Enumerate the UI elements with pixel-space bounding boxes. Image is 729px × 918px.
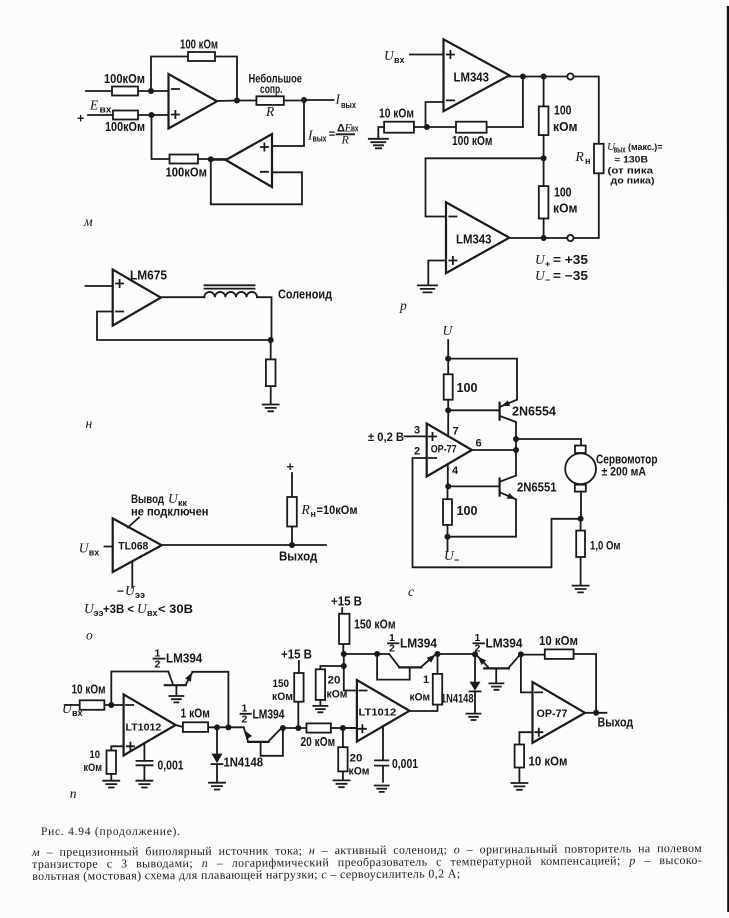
svg-text:кОм: кОм bbox=[553, 120, 578, 134]
svg-text:Соленоид: Соленоид bbox=[278, 288, 332, 302]
svg-text:с: с bbox=[408, 584, 414, 599]
svg-text:LM343: LM343 bbox=[454, 71, 490, 85]
svg-text:п: п bbox=[70, 786, 77, 801]
svg-text:+: + bbox=[77, 112, 84, 126]
svg-text:LM675: LM675 bbox=[130, 269, 167, 283]
svg-text:R: R bbox=[265, 104, 275, 119]
svg-text:+3В <: +3В < bbox=[103, 602, 134, 616]
svg-text:кОм: кОм bbox=[327, 689, 348, 701]
svg-text:(макс.)=: (макс.)= bbox=[628, 142, 663, 152]
svg-text:Выход: Выход bbox=[598, 716, 634, 730]
svg-text:LT1012: LT1012 bbox=[126, 722, 162, 734]
svg-text:вх: вх bbox=[100, 105, 112, 115]
svg-text:10 кОм: 10 кОм bbox=[72, 683, 106, 697]
svg-text:=: = bbox=[329, 129, 335, 141]
svg-text:н: н bbox=[585, 156, 590, 166]
svg-text:кОм: кОм bbox=[272, 691, 293, 703]
svg-text:= +35: = +35 bbox=[553, 253, 588, 267]
svg-text:100: 100 bbox=[554, 186, 572, 200]
svg-text:Выход: Выход bbox=[279, 550, 317, 564]
svg-text:LM394: LM394 bbox=[253, 708, 285, 722]
svg-text:4: 4 bbox=[452, 465, 459, 477]
svg-text:0,001: 0,001 bbox=[392, 757, 418, 771]
svg-text:OP-77: OP-77 bbox=[431, 444, 457, 456]
svg-text:кОм: кОм bbox=[410, 692, 431, 704]
svg-text:1N4148: 1N4148 bbox=[441, 692, 474, 706]
svg-text:10: 10 bbox=[90, 749, 101, 761]
svg-text:не подключен: не подключен bbox=[131, 505, 209, 519]
svg-text:2N6554: 2N6554 bbox=[512, 405, 556, 419]
svg-text:до пика): до пика) bbox=[611, 176, 655, 186]
svg-text:кОм: кОм bbox=[349, 766, 370, 778]
svg-text:н: н bbox=[311, 509, 316, 519]
svg-text:LT1012: LT1012 bbox=[359, 707, 397, 719]
svg-text:+: + bbox=[287, 460, 294, 474]
svg-text:1N4148: 1N4148 bbox=[224, 756, 264, 770]
svg-text:ээ: ээ bbox=[94, 608, 104, 618]
svg-text:о: о bbox=[86, 628, 93, 643]
svg-text:R: R bbox=[301, 502, 311, 517]
svg-text:R: R bbox=[341, 133, 350, 147]
svg-text:2: 2 bbox=[155, 659, 161, 671]
svg-text:100кОм: 100кОм bbox=[104, 72, 145, 86]
svg-text:100 кОм: 100 кОм bbox=[180, 38, 218, 52]
svg-text:= −35: = −35 bbox=[553, 269, 588, 283]
svg-text:2N6551: 2N6551 bbox=[517, 481, 557, 495]
svg-text:20: 20 bbox=[350, 753, 363, 765]
svg-text:н: н bbox=[86, 416, 93, 431]
svg-text:2: 2 bbox=[389, 643, 395, 655]
svg-text:1,0 Ом: 1,0 Ом bbox=[590, 539, 621, 553]
svg-text:6: 6 bbox=[476, 438, 482, 450]
svg-text:20 кОм: 20 кОм bbox=[301, 735, 336, 749]
svg-text:+15 В: +15 В bbox=[331, 595, 362, 609]
svg-text:LM394: LM394 bbox=[400, 637, 437, 651]
svg-text:100кОм: 100кОм bbox=[166, 166, 208, 180]
svg-text:0,001: 0,001 bbox=[158, 759, 184, 773]
svg-text:7: 7 bbox=[453, 426, 459, 438]
svg-text:1 кОм: 1 кОм bbox=[181, 707, 210, 721]
svg-text:150: 150 bbox=[273, 678, 290, 690]
svg-text:вх: вх bbox=[147, 608, 158, 618]
svg-text:кОм: кОм bbox=[553, 202, 578, 216]
svg-text:20: 20 bbox=[328, 675, 341, 687]
svg-text:сопр.: сопр. bbox=[260, 82, 283, 96]
svg-text:10 кОм: 10 кОм bbox=[379, 107, 414, 121]
svg-text:вх: вх bbox=[351, 124, 359, 134]
svg-text:p: p bbox=[399, 298, 407, 313]
svg-text:1: 1 bbox=[423, 674, 429, 686]
svg-text:100 кОм: 100 кОм bbox=[452, 134, 493, 148]
svg-text:± 200 мА: ± 200 мА bbox=[602, 465, 647, 479]
svg-text:−: − bbox=[117, 584, 124, 598]
svg-text:+15 В: +15 В bbox=[281, 648, 312, 662]
svg-text:10 кОм: 10 кОм bbox=[529, 755, 568, 769]
svg-text:вых: вых bbox=[614, 145, 626, 155]
svg-text:2: 2 bbox=[414, 446, 420, 458]
svg-text:150 кОм: 150 кОм bbox=[354, 618, 396, 632]
svg-text:−: − bbox=[454, 555, 459, 565]
svg-text:−: − bbox=[545, 275, 550, 285]
svg-text:вых: вых bbox=[341, 100, 356, 110]
svg-text:100: 100 bbox=[554, 104, 572, 118]
svg-text:R: R bbox=[575, 149, 585, 164]
svg-text:≈ 130В: ≈ 130В bbox=[615, 155, 649, 165]
svg-text:ээ: ээ bbox=[135, 590, 145, 600]
svg-text:2: 2 bbox=[242, 714, 248, 726]
svg-text:(от пика: (от пика bbox=[608, 166, 655, 176]
svg-text:TL068: TL068 bbox=[118, 541, 148, 553]
svg-text:вх: вх bbox=[394, 55, 405, 65]
svg-text:+: + bbox=[545, 259, 550, 269]
svg-text:LM394: LM394 bbox=[166, 652, 202, 666]
svg-text:LM394: LM394 bbox=[486, 637, 523, 651]
svg-text:100кОм: 100кОм bbox=[105, 120, 145, 134]
svg-text:вх: вх bbox=[89, 548, 100, 558]
svg-text:OP-77: OP-77 bbox=[537, 708, 568, 720]
svg-text:LM343: LM343 bbox=[456, 233, 492, 247]
svg-text:вых: вых bbox=[313, 134, 327, 144]
svg-text:3: 3 bbox=[414, 425, 420, 437]
svg-text:U: U bbox=[443, 323, 454, 338]
svg-text:< 30В: < 30В bbox=[158, 602, 193, 616]
svg-text:=10кОм: =10кОм bbox=[317, 503, 358, 517]
svg-text:100: 100 bbox=[457, 504, 478, 518]
svg-text:м: м bbox=[83, 214, 93, 229]
svg-text:кОм: кОм bbox=[84, 762, 103, 774]
svg-text:Е: Е bbox=[89, 98, 99, 113]
svg-text:100: 100 bbox=[457, 381, 478, 395]
svg-text:10 кОм: 10 кОм bbox=[539, 634, 578, 648]
svg-text:± 0,2 В: ± 0,2 В bbox=[368, 430, 404, 444]
